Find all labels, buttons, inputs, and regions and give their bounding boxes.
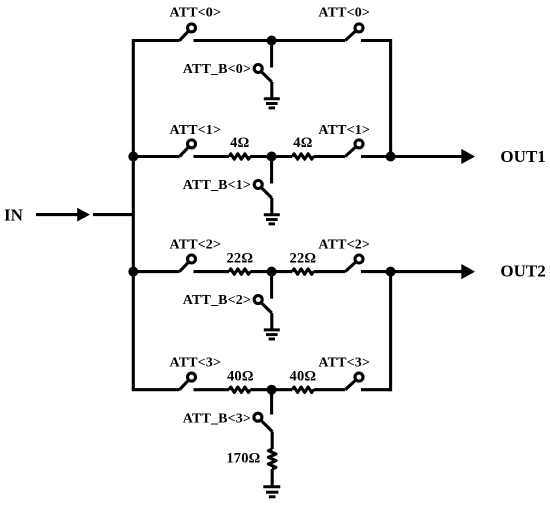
resistor 170Ω [268,449,276,469]
switch ATT<3> right lever [345,377,359,390]
wire row0 switch to mid junction [194,39,272,42]
label ATT<1> (row 1 left) [169,123,221,138]
wire row0 junction down to shunt switch [270,41,273,68]
wire row0 mid to right switch [272,39,346,42]
wire resistor to ground (row 3) [271,469,274,486]
label ATT_B<3> [183,411,251,426]
switch ATT<1> left contact circle [188,140,196,148]
switch ATT_B<0> lever [258,69,272,83]
resistor 40Ω (row 3 left) [229,387,250,392]
label ATT<0> (row 0 right) [318,6,370,21]
switch ATT<3> left contact circle [188,373,196,381]
svg-text:ATT<0>: ATT<0> [318,6,370,21]
wire OUT2 arrow shaft [391,270,462,273]
switch ATT<1> left lever [180,144,192,157]
label 40Ω (row 3 right) [290,369,317,385]
label ATT_B<1> [183,178,251,193]
node junction left bus row1 [128,152,138,162]
svg-text:40Ω: 40Ω [227,369,254,385]
svg-text:22Ω: 22Ω [290,251,317,267]
wire row1 switch to resistor [194,155,230,158]
node junction row2 mid [267,267,277,277]
OUT2 arrowhead [461,264,475,279]
switch ATT<2> left contact circle [188,255,196,263]
resistor 4Ω (row 1 left) [229,154,250,159]
switch ATT_B<1> contact circle [254,181,262,189]
label 170Ω [226,451,260,467]
node junction row1 mid [267,152,277,162]
switch ATT<1> right lever [345,144,359,157]
svg-text:170Ω: 170Ω [226,451,260,467]
switch ATT<2> right contact circle [355,255,363,263]
wire IN input segment [36,213,78,216]
svg-text:ATT_B<1>: ATT_B<1> [183,178,251,193]
wire row0 left bus to switch [132,39,180,42]
ground (row 2) [264,330,280,339]
node junction row0 mid [267,36,277,46]
wire shunt switch to ground (row 0) [270,82,273,98]
label ATT<1> (row 1 right) [318,123,370,138]
node IN label [4,205,24,224]
wire row3 switch to resistor [194,388,230,391]
wire row3 resistor to right switch [314,388,346,391]
wire row3 junction down to shunt switch [270,390,273,415]
label 22Ω (row 2 right) [290,251,317,267]
resistor 22Ω (row 2 left) [229,269,250,274]
switch ATT<0> left lever [180,28,192,41]
resistor 40Ω (row 3 right) [292,387,313,392]
svg-text:ATT_B<2>: ATT_B<2> [183,293,251,308]
IN direction arrowhead [77,208,90,222]
wire row1 left bus to switch [133,155,179,158]
label ATT<0> (row 0 left) [169,6,221,21]
wire shunt switch to ground (row 2) [270,313,273,329]
switch ATT<2> right lever [345,259,359,272]
resistor 22Ω (row 2 right) [292,269,313,274]
wire OUT1 arrow shaft [391,155,462,158]
node OUT2 label [500,262,545,281]
wire row3 left bus to switch [132,388,180,391]
wire row2 resistor to right switch [314,270,346,273]
svg-text:ATT<2>: ATT<2> [169,238,221,253]
label ATT<2> (row 2 left) [169,238,221,253]
node OUT1 label [500,147,545,166]
wire right bus upper segment [389,39,392,157]
wire row2 resistor to mid junction [250,270,292,273]
wire row1 resistor to right switch [314,155,346,158]
wire shunt switch to ground (row 1) [270,198,273,214]
wire shunt switch to resistor (row 3) [271,432,274,450]
label ATT<3> (row 3 left) [169,355,221,370]
svg-text:ATT<3>: ATT<3> [318,355,370,370]
wire row1 switch to OUT1 junction [361,155,391,158]
svg-text:ATT<1>: ATT<1> [169,123,221,138]
switch ATT_B<3> contact circle [254,413,262,421]
switch ATT<2> left lever [180,259,192,272]
switch ATT<3> right contact circle [355,373,363,381]
label 40Ω (row 3 left) [227,369,254,385]
wire IN to left bus [93,213,133,216]
node junction OUT2 [386,267,396,277]
svg-text:ATT<0>: ATT<0> [169,6,221,21]
wire row0 switch to right bus corner [361,39,391,42]
ground (row 0) [264,99,280,108]
wire row2 switch to resistor [194,270,230,273]
svg-text:ATT_B<0>: ATT_B<0> [183,62,251,77]
wire row2 switch to OUT2 junction [361,270,391,273]
svg-text:40Ω: 40Ω [290,369,317,385]
svg-text:ATT<3>: ATT<3> [169,355,221,370]
label 4Ω (row 1 right) [293,135,312,151]
svg-text:4Ω: 4Ω [293,135,312,151]
switch ATT<0> left contact circle [188,24,196,32]
switch ATT_B<3> lever [258,417,272,431]
wire row3 switch to right bus corner [361,388,391,391]
switch ATT_B<2> contact circle [254,296,262,304]
wire right bus lower segment [389,272,392,392]
wire row3 resistor to mid junction [250,388,292,391]
switch ATT<3> left lever [180,377,192,390]
switch ATT_B<0> contact circle [254,65,262,73]
node junction OUT1 [386,152,396,162]
switch ATT<1> right contact circle [355,140,363,148]
svg-text:OUT1: OUT1 [500,147,545,166]
wire row1 resistor to mid junction [250,155,292,158]
wire row2 junction down to shunt switch [270,272,273,299]
node junction row3 mid [267,385,277,395]
wire row1 junction down to shunt switch [270,157,273,184]
svg-text:ATT<2>: ATT<2> [318,238,370,253]
switch ATT_B<2> lever [258,300,272,314]
label ATT_B<0> [183,62,251,77]
svg-text:IN: IN [4,205,24,224]
OUT1 arrowhead [461,149,475,164]
svg-text:ATT<1>: ATT<1> [318,123,370,138]
ground (row 1) [264,215,280,224]
switch ATT<0> right contact circle [355,24,363,32]
wire left bus vertical [132,41,135,390]
ground (row 3) [263,487,280,497]
svg-text:OUT2: OUT2 [500,262,545,281]
node junction left bus row2 [128,267,138,277]
label ATT_B<2> [183,293,251,308]
label 22Ω (row 2 left) [226,251,253,267]
svg-text:22Ω: 22Ω [226,251,253,267]
label 4Ω (row 1 left) [230,135,249,151]
wire row2 left bus to switch [133,270,179,273]
svg-text:ATT_B<3>: ATT_B<3> [183,411,251,426]
switch ATT_B<1> lever [258,185,272,199]
resistor 4Ω (row 1 right) [292,154,313,159]
label ATT<3> (row 3 right) [318,355,370,370]
label ATT<2> (row 2 right) [318,238,370,253]
switch ATT<0> right lever [345,28,359,41]
svg-text:4Ω: 4Ω [230,135,249,151]
